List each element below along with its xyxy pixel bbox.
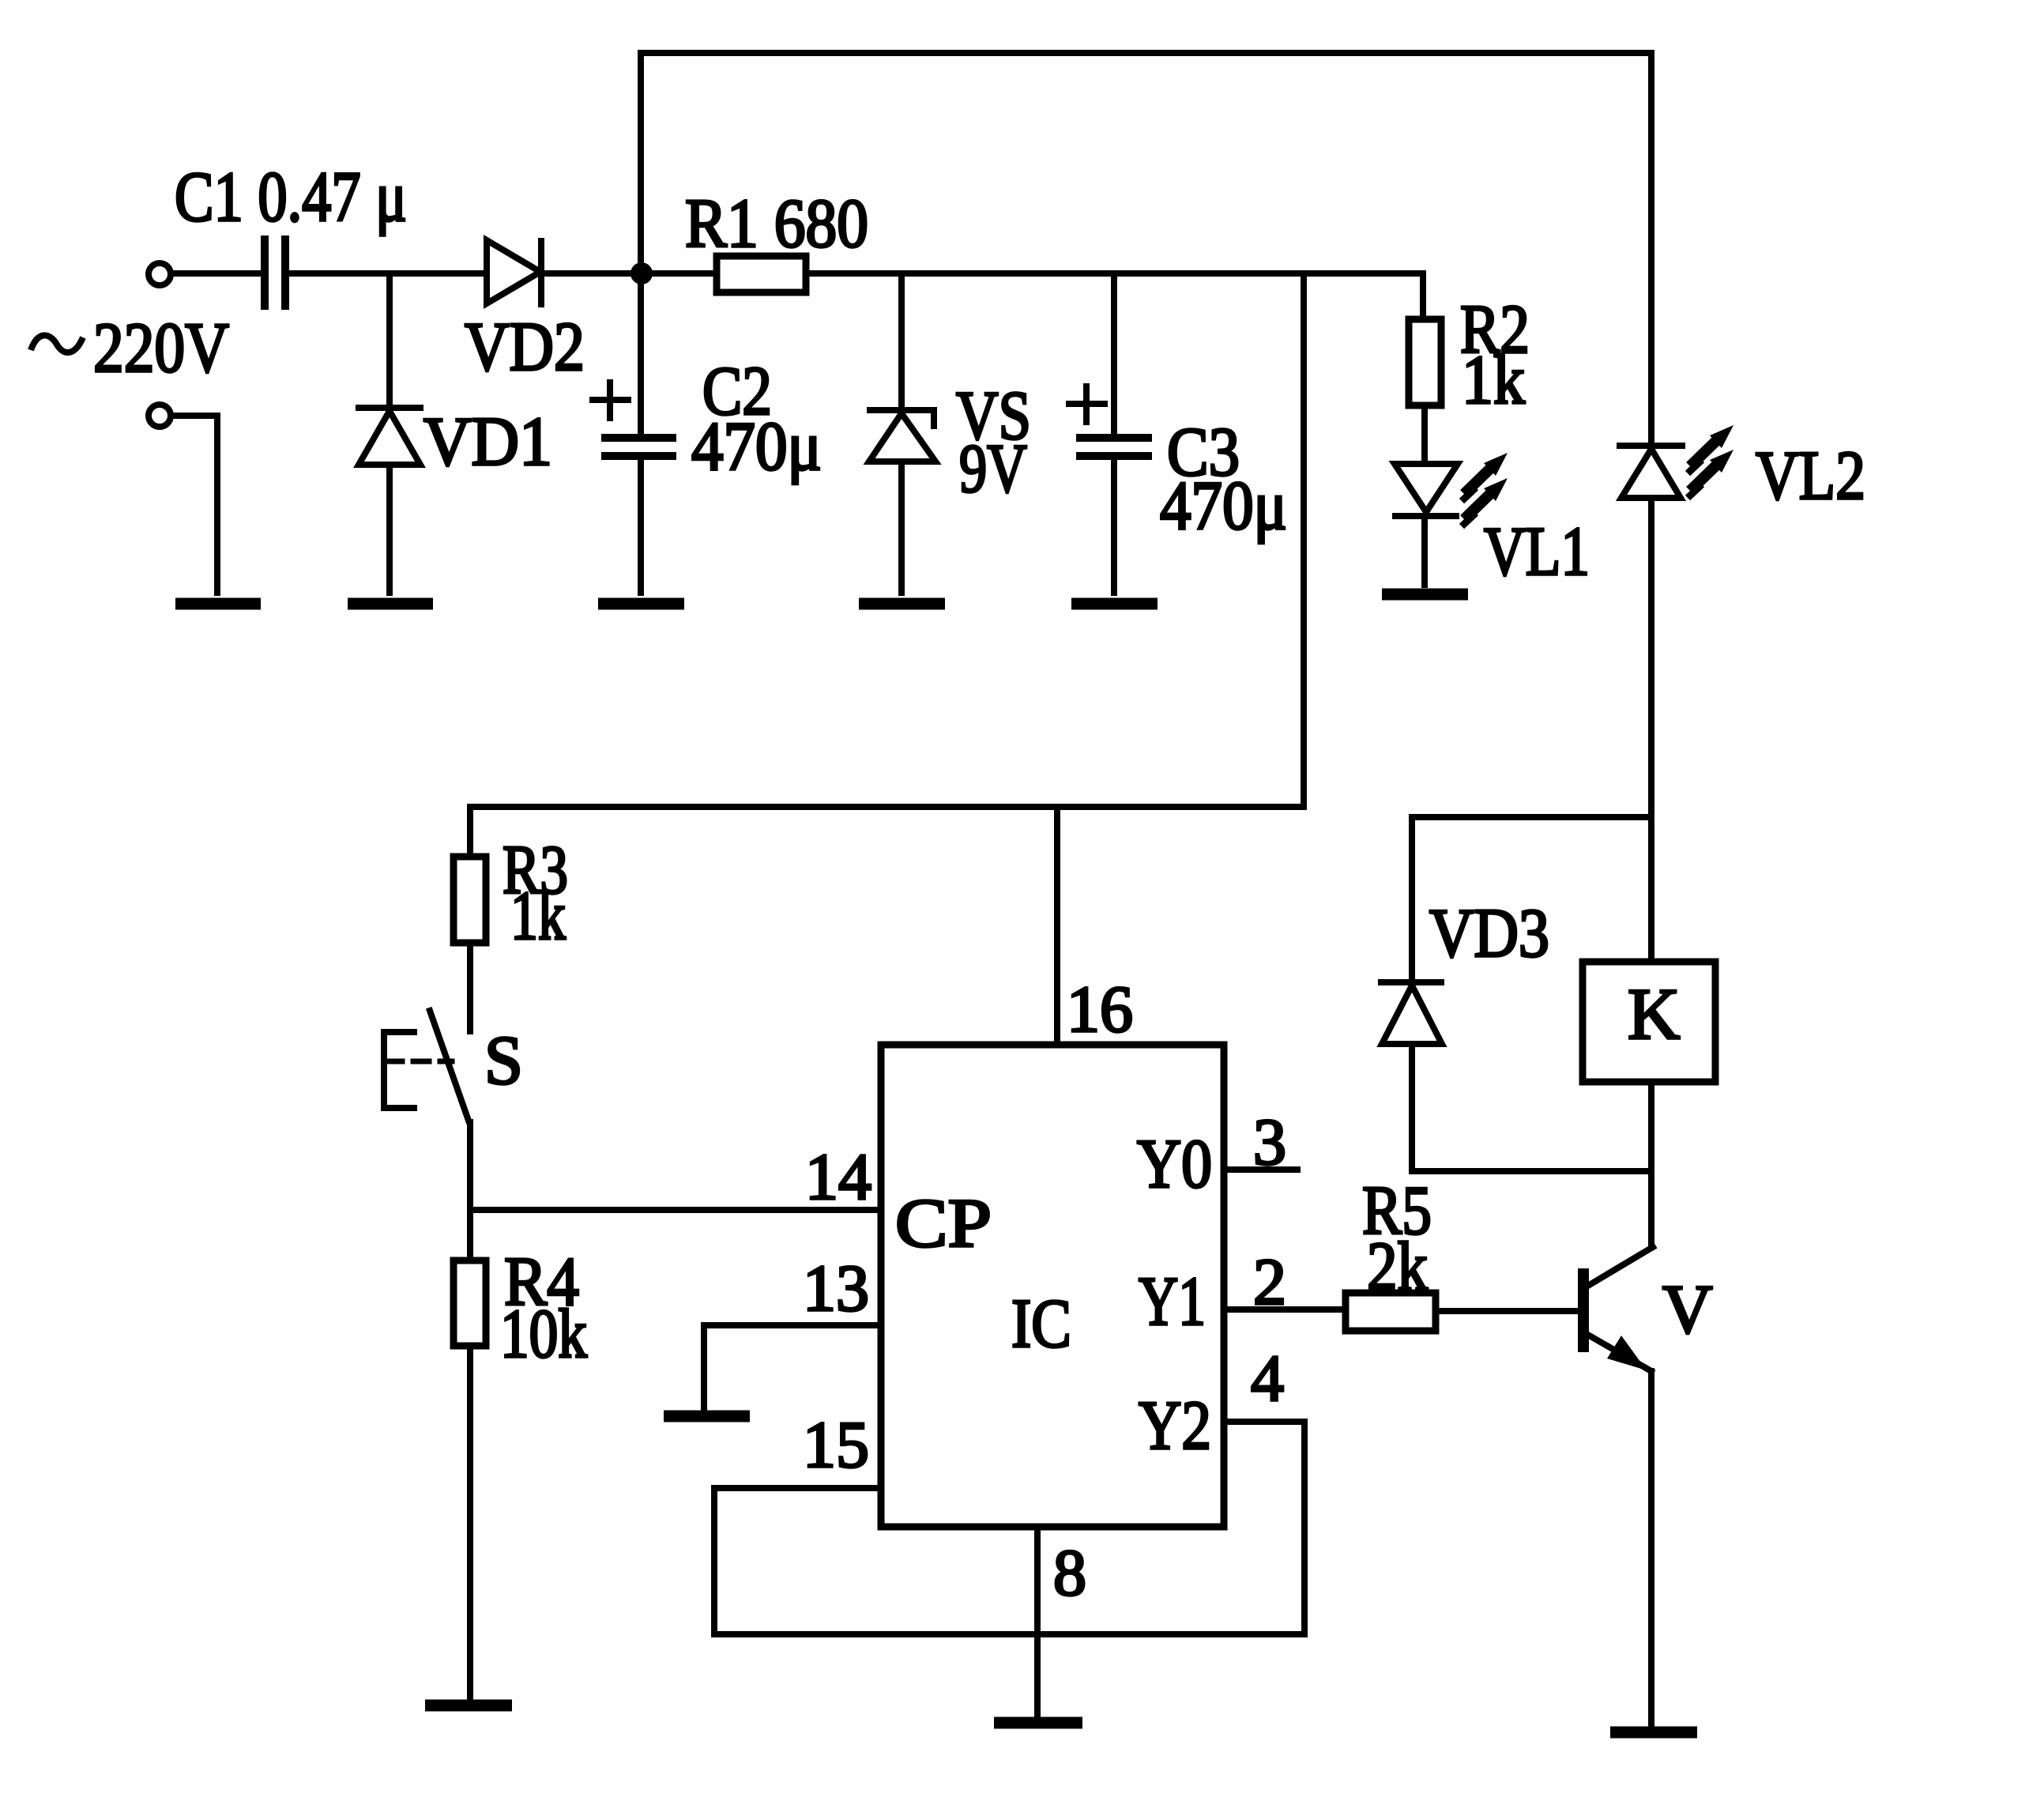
LED VL2 arrows	[1688, 425, 1733, 498]
wire K to collector	[1648, 1082, 1654, 1247]
svg-text:1k: 1k	[510, 878, 566, 955]
wire emitter to ground	[1648, 1371, 1654, 1727]
svg-text:4: 4	[1251, 1342, 1284, 1415]
svg-text:14: 14	[805, 1140, 871, 1214]
wire T2 down	[173, 416, 217, 593]
diode VD2	[487, 240, 541, 304]
wire VD3 to bottom rail	[1412, 1044, 1651, 1171]
transistor V collector	[1587, 1247, 1653, 1287]
svg-text:K: K	[1628, 974, 1680, 1054]
wire switch to R4	[467, 1122, 473, 1260]
wire long vertical to lower rail	[470, 273, 1304, 807]
LED VL1 arrows	[1462, 453, 1508, 526]
LED VL2	[1620, 446, 1682, 498]
ground R4	[425, 1700, 512, 1712]
ground C3	[1071, 598, 1158, 610]
svg-text:R1 680: R1 680	[685, 186, 868, 262]
wire pin 8 to ground	[1034, 1527, 1041, 1717]
svg-text:CP: CP	[895, 1185, 992, 1262]
svg-text:VL2: VL2	[1756, 438, 1865, 514]
wire pin 2 Y1 to R5	[1224, 1306, 1346, 1313]
tilde AC symbol	[31, 335, 83, 352]
transistor V emitter arrowhead	[1607, 1336, 1647, 1370]
diode VD3	[1381, 982, 1442, 1044]
wire pin 14 CP	[470, 1207, 881, 1213]
svg-text:1k: 1k	[1462, 342, 1525, 419]
transistor V base bar	[1578, 1268, 1589, 1352]
svg-text:Y0: Y0	[1137, 1126, 1212, 1203]
wire C3 to ground	[1111, 460, 1117, 593]
resistor R3	[454, 857, 486, 943]
svg-text:Y1: Y1	[1139, 1264, 1206, 1340]
ground VD1	[348, 598, 433, 610]
transistor V emitter	[1587, 1334, 1651, 1371]
wire VD1 branch	[386, 273, 393, 405]
wire VD3 top branch	[1412, 814, 1648, 820]
svg-text:VD1: VD1	[423, 404, 552, 480]
capacitor C2	[601, 438, 676, 456]
wire pin 3 Y0 stub	[1224, 1166, 1297, 1173]
wire pin 16	[1054, 807, 1060, 1045]
svg-text:C1 0.47 μ: C1 0.47 μ	[175, 158, 407, 236]
plus C2	[593, 382, 628, 418]
wire VD2 to R1	[545, 270, 717, 277]
wire VD3 anode	[1409, 817, 1415, 979]
wire R5 to base	[1436, 1308, 1580, 1314]
ground emitter	[1610, 1727, 1697, 1739]
switch S bracket	[384, 1032, 414, 1108]
capacitor C1	[265, 236, 285, 310]
svg-text:S: S	[484, 1023, 523, 1099]
svg-text:470μ: 470μ	[691, 409, 822, 485]
wire C2 branch	[638, 273, 644, 434]
terminal T2	[149, 405, 171, 427]
diode VD1	[359, 408, 420, 465]
wire T1 to C1	[173, 270, 258, 277]
svg-text:3: 3	[1253, 1106, 1286, 1179]
svg-text:470μ: 470μ	[1160, 468, 1287, 544]
svg-text:V: V	[1662, 1272, 1713, 1348]
wire C3 branch	[1111, 273, 1117, 434]
wire R4 to ground	[467, 1346, 473, 1699]
wire R3 top	[467, 807, 473, 857]
svg-text:15: 15	[803, 1408, 869, 1482]
svg-text:VL1: VL1	[1484, 514, 1590, 590]
wire VS to ground	[898, 462, 905, 593]
plus C3	[1069, 386, 1105, 422]
ground VS	[859, 598, 945, 610]
node A junction dot	[631, 262, 653, 284]
ground VL1	[1382, 589, 1468, 601]
wire C2 to ground	[638, 460, 644, 593]
svg-text:220V: 220V	[93, 309, 229, 387]
svg-text:9V: 9V	[959, 431, 1027, 507]
svg-text:13: 13	[803, 1252, 869, 1325]
svg-text:IC: IC	[1011, 1286, 1071, 1362]
IC box U1	[881, 1045, 1224, 1527]
svg-text:10k: 10k	[500, 1296, 587, 1373]
switch S blade	[430, 1011, 469, 1121]
relay K	[1583, 962, 1715, 1082]
wire top loop	[641, 53, 1651, 446]
wire pin 13 to ground	[704, 1325, 881, 1411]
wire R2 to VL1	[1421, 405, 1428, 461]
resistor R5	[1346, 1293, 1436, 1331]
resistor R1	[717, 256, 806, 292]
svg-text:Y2: Y2	[1139, 1388, 1211, 1464]
wire pin 15 loop to pin 4	[714, 1422, 1304, 1634]
ground pin8	[994, 1717, 1082, 1729]
switch S dashed link	[386, 1059, 452, 1064]
LED VL1	[1395, 464, 1458, 516]
wire R1 to R2 corner	[806, 273, 1423, 319]
wire R3 to switch	[467, 943, 473, 1031]
ground pin13	[664, 1411, 750, 1422]
ground C2	[598, 598, 684, 610]
svg-text:2: 2	[1253, 1245, 1286, 1319]
resistor R2	[1409, 319, 1441, 405]
wire VS branch	[898, 273, 905, 407]
wire VL1 to ground	[1421, 516, 1428, 585]
wire VL2 down to K	[1648, 498, 1654, 962]
ground T2	[175, 598, 261, 610]
capacitor C3	[1076, 438, 1152, 456]
terminal T1	[149, 263, 171, 285]
wire VD1 to ground	[386, 465, 393, 593]
svg-text:16: 16	[1067, 973, 1133, 1046]
svg-text:8: 8	[1053, 1536, 1086, 1610]
wire C1 to VD2	[289, 270, 484, 277]
resistor R4	[454, 1260, 486, 1346]
svg-text:VD2: VD2	[465, 309, 585, 386]
svg-text:VD3: VD3	[1429, 895, 1549, 972]
zener VS	[869, 410, 935, 462]
svg-text:2k: 2k	[1367, 1229, 1428, 1306]
